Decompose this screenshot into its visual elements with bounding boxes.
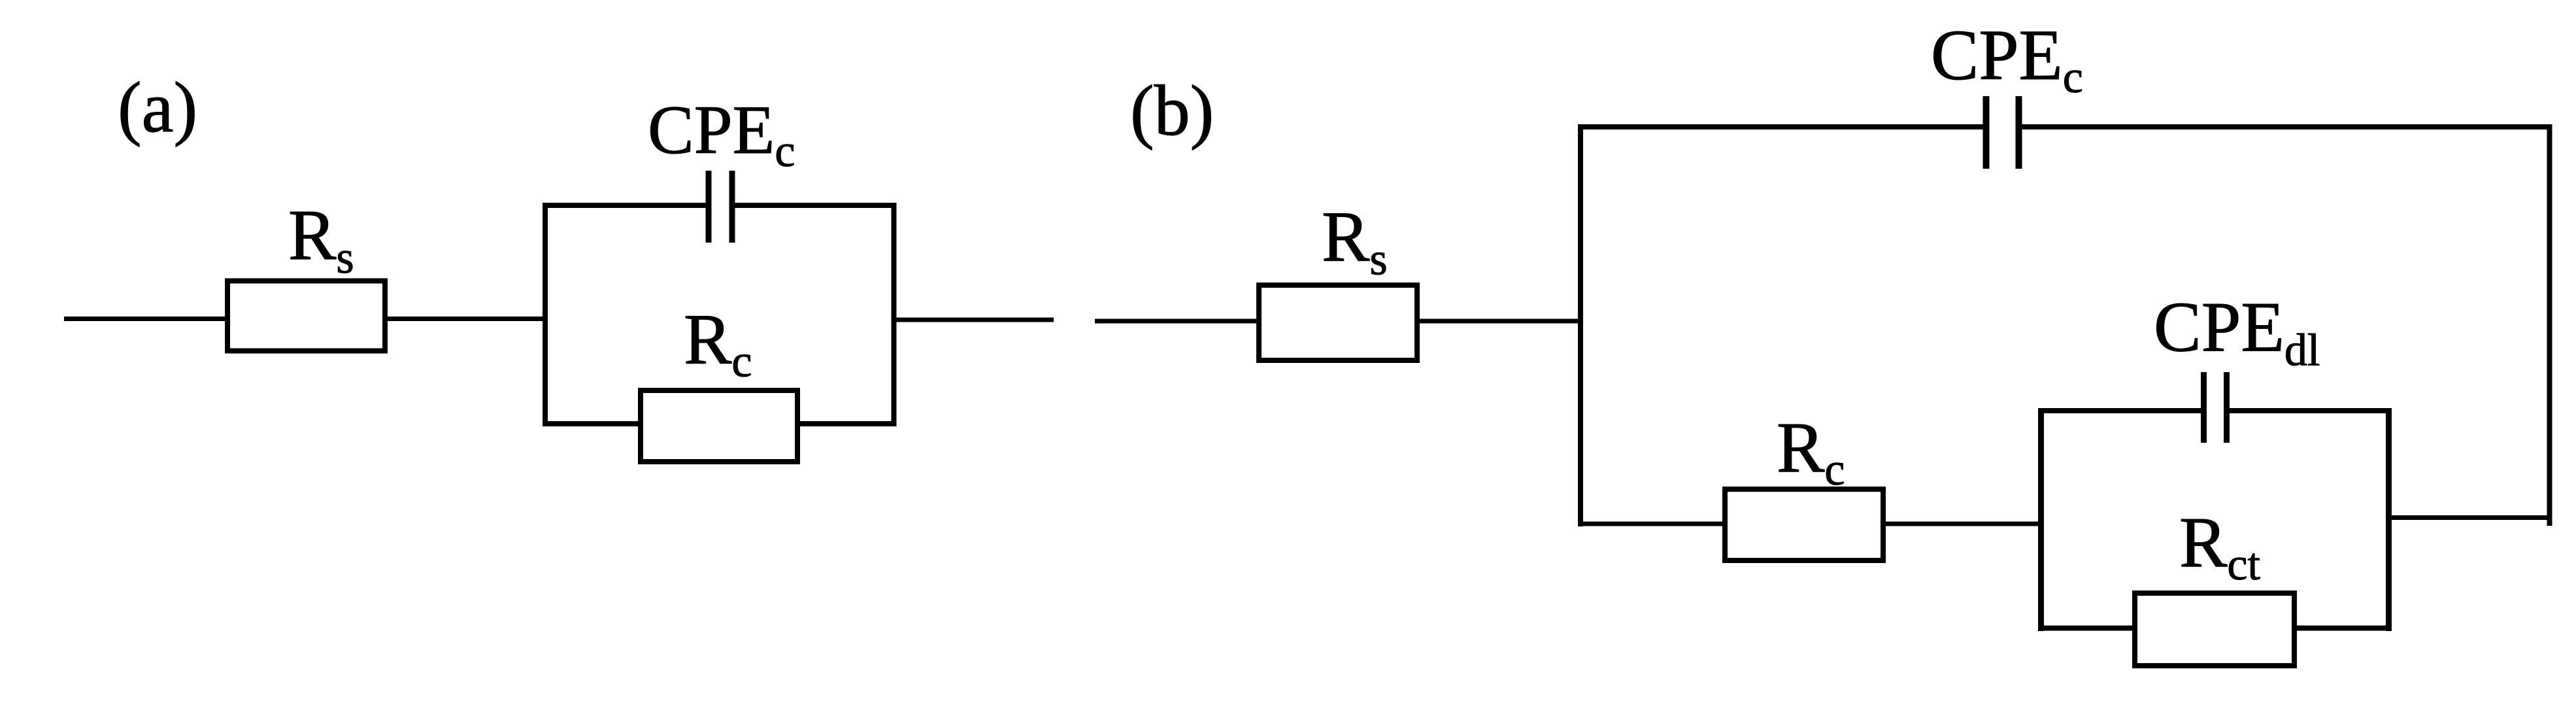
wire: Rs to parallel network (a) [388,317,548,321]
wire: inner network bottom, left segment (b) [2038,626,2135,631]
svg-text:CPEc: CPEc [1931,15,2083,103]
wire: lower branch lead-in (b) [1578,522,1725,526]
svg-text:(b): (b) [1130,71,1214,150]
wire: inner network to outer loop output (b) [2392,515,2552,520]
wire: inner network left vertical (b) [2038,408,2044,631]
wire: parallel network bottom, right segment (a) [795,421,896,426]
wire: Rc to inner parallel network (b) [1883,522,2043,526]
wire: parallel network bottom, left segment (a) [543,421,643,426]
wire: inner network top, left segment (b) [2038,408,2203,413]
wire: inner network right vertical (b) [2386,408,2392,631]
resistor Rs (b) [1259,285,1417,360]
wire: input lead of circuit (b) [1095,319,1262,324]
wire: parallel network left vertical (a) [543,203,548,426]
wire: outer loop left vertical (b) [1578,124,1583,526]
wire: parallel network top, right segment (a) [732,203,896,208]
wire: input lead of circuit (a) [64,317,227,321]
wire: output lead of circuit (a) [896,318,1054,322]
svg-text:CPEc: CPEc [648,92,795,177]
resistor Rc (b) [1725,489,1883,560]
resistor Rct (b) [2135,593,2294,666]
wire: parallel network right vertical (a) [892,203,897,426]
svg-text:(a): (a) [118,67,197,147]
wire: parallel network top, left segment (a) [543,203,709,208]
wire: inner network bottom, right segment (b) [2294,626,2392,631]
wire: outer loop top, right segment (b) [2019,124,2552,129]
capacitor CPEc (b) [1986,96,2019,169]
wire: inner network top, right segment (b) [2227,408,2392,413]
wire: outer loop top, left segment (b) [1578,124,1986,129]
wire: outer loop right vertical (b) [2547,124,2552,526]
wire: Rs to main junction (b) [1420,319,1583,324]
resistor Rs (a) [227,281,385,351]
resistor Rc (a) [641,390,797,462]
capacitor CPEc (a) [709,171,732,243]
capacitor CPEdl (b) [2204,372,2227,443]
